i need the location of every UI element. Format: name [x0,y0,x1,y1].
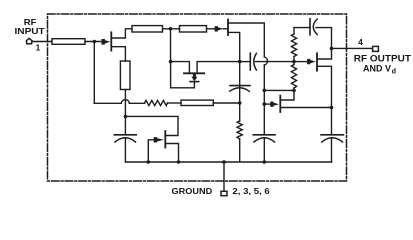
wire: Q2 source down to mid row [229,32,240,61]
dashed package border [48,14,347,181]
wire: R6 top to C2 [294,27,310,29]
wire: R3 to Q2 gate arrow [207,28,215,30]
node: R7 bottom tie [292,89,296,93]
wire hop: bias column over row (crossover) [264,57,267,65]
node: Q6 gate tie [263,102,267,106]
wire: Q6 source to output column [281,107,331,109]
resistor R2 (top rail) [132,26,163,32]
wire: R2 to R3 through node A [163,28,180,30]
wire: R1 to input node [85,41,102,43]
transistor Q6 gate arrow [270,102,279,107]
node: Q2 source junction [238,60,242,64]
wire: bias column below hop [263,65,265,135]
capacitor C6 (shunt, straight plate) [321,134,343,136]
wire: R6 to node [293,57,295,65]
transistor Q6 channel bar [279,96,281,112]
wire: R6b to bias mid node [213,102,239,104]
wire: C6 column below [331,138,333,162]
wire: output junction to terminal [332,47,373,49]
transistor Q5 channel bar [316,53,318,70]
wire: R7 bottom to bias column [264,89,294,91]
capacitor C1 curved plate [254,53,257,70]
RF INPUT terminal pin 1 [26,38,32,43]
wire: input terminal to R1 [32,41,52,43]
svg-text:4: 4 [358,37,363,47]
node: C4 tie [124,115,128,119]
transistor Q3 channel bar (horizontal) [184,72,204,74]
resistor R1 [52,39,85,45]
wire: Q1 source to R4 [112,47,125,61]
svg-text:AND V: AND V [363,64,391,74]
capacitor C2 (feedback, straight plate) [309,19,311,35]
wire: node A to Q3 left lead [171,62,190,73]
transistor Q2 gate arrow [215,26,224,31]
capacitor C5 curved plate [254,138,275,142]
capacitor C3 curved plate [230,88,250,92]
node: output junction [330,47,334,51]
transistor Q4 gate arrow [154,137,164,142]
node: input node [93,40,97,44]
transistor Q2 channel bar [227,20,229,36]
resistor R9 zigzag [237,121,242,139]
wire: Q4 gate to ground [148,140,154,162]
transistor Q1 gate arrow [102,39,111,45]
wire: input node down (feedback column) [93,42,95,104]
wire: C2 to output column [316,28,332,49]
svg-text:RF OUTPUT: RF OUTPUT [354,54,412,64]
wire: node to Q5 gate arrow [294,61,307,63]
wire: node A down to Q3 gate [171,62,195,88]
capacitor C4 (shunt, straight plate) [114,134,136,136]
node A column [170,29,172,62]
wire: junction to C1 [240,61,250,63]
wire: Q2 drain across top to bias column [229,23,264,57]
svg-text:INPUT: INPUT [15,27,45,36]
node: Q6 source tie [330,106,334,110]
wire: arrow to Q2 bar [223,28,227,30]
resistor R3 (top rail) [180,26,207,32]
transistor Q3 gate bar [190,81,199,83]
node A top [169,27,173,31]
ground terminal [221,191,227,195]
wire: Q5 source to output column lower [318,66,332,134]
wire: C4 node to Q4 drain [125,116,178,135]
capacitor C4 curved plate [115,138,136,142]
resistor R6 zigzag [291,34,296,57]
capacitor C6 curved plate [322,138,343,142]
resistor R4 (vertical, Q1 source) [120,61,130,90]
resistor R7 (vertical zigzag lower) [291,65,296,89]
wire: hop to R5 [129,102,144,104]
transistor Q3 gate arrow (down) [191,74,197,81]
wire: R5 to R6rect [168,102,182,104]
ground rail [125,161,331,163]
svg-text:RF: RF [24,18,37,27]
node: R6/R7 junction [292,60,296,64]
wire: C3 column [239,62,241,103]
wire hop: row over R4 column [121,100,129,104]
capacitor C1 (series, straight plate) [249,53,251,70]
wire: Q4 source to ground rail [166,144,178,163]
node: ground rail dots [147,160,151,164]
wire: C1 to R6/R7 node (passes under hop) [256,61,295,63]
wire: input feedback row to hop [94,102,121,104]
svg-text:d: d [392,69,396,76]
transistor Q4 channel bar [164,131,166,148]
resistor R6 (vertical zigzag upper) lead [293,28,295,34]
wire: bias column to Q6 gate [264,103,270,105]
wire: Q1 drain to top rail [112,29,132,38]
capacitor C3 (vertical, straight plate) [230,85,250,87]
wire: Q5 drain to output column [318,48,332,59]
resistor R6b (horizontal box) [181,100,213,105]
svg-text:2, 3, 5, 6: 2, 3, 5, 6 [232,187,270,196]
transistor Q5 gate arrow [307,59,316,64]
wire: Q3 right lead to mid row [197,62,240,73]
svg-text:1: 1 [36,43,41,53]
wire: C5 to ground rail [263,138,265,162]
capacitor C5 (shunt, straight plate) [253,134,275,136]
svg-text:GROUND: GROUND [172,187,213,196]
capacitor C2 curved plate [313,19,317,35]
resistor R9 (vertical zigzag) lead [239,103,241,121]
wire: R4 bottom column to C4 [124,90,126,135]
node: bias column tie [263,89,267,93]
transistor Q1 channel bar [110,32,112,50]
node A mid dot [169,60,173,64]
wire: C4 to ground rail [124,138,126,162]
ground stem [223,162,225,191]
wire: R7 bottom to Q6 drain [281,88,294,100]
resistor R5 (horizontal zigzag) [145,100,168,105]
wire: R9 to ground rail [239,139,241,162]
node: bias mid node [238,101,242,105]
RF OUTPUT terminal pin 4 [373,46,379,51]
